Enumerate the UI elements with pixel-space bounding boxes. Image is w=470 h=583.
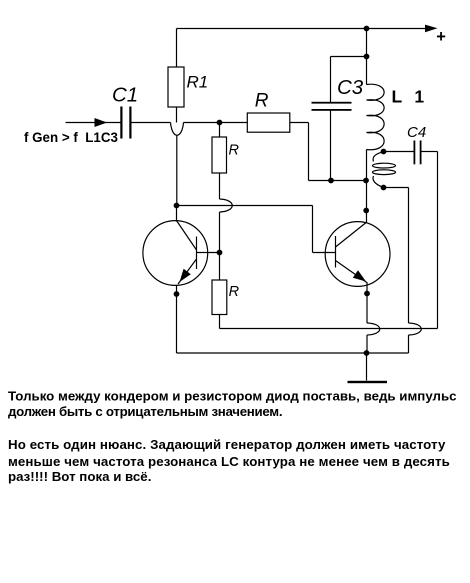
svg-text:R: R (255, 90, 269, 111)
svg-text:раз!!!! Вот пока и всё.: раз!!!! Вот пока и всё. (8, 469, 151, 484)
svg-text:R: R (229, 143, 240, 159)
svg-text:f Gen > f L1C3: f Gen > f L1C3 (24, 129, 118, 145)
svg-text:L 1: L 1 (392, 87, 428, 107)
svg-text:R: R (229, 284, 240, 300)
svg-text:Но есть один нюанс. Задающий г: Но есть один нюанс. Задающий генератор д… (8, 437, 446, 452)
svg-text:должен быть с отрицательным зн: должен быть с отрицательным значением. (8, 404, 282, 419)
svg-text:C1: C1 (112, 84, 138, 107)
svg-text:+: + (436, 28, 446, 46)
svg-text:C3: C3 (337, 76, 364, 99)
svg-text:меньше чем частота резонанса L: меньше чем частота резонанса LC контура … (8, 454, 450, 469)
svg-text:C4: C4 (407, 124, 426, 141)
svg-text:Только между кондером и резист: Только между кондером и резистором диод … (8, 389, 457, 404)
svg-text:R1: R1 (187, 72, 209, 91)
